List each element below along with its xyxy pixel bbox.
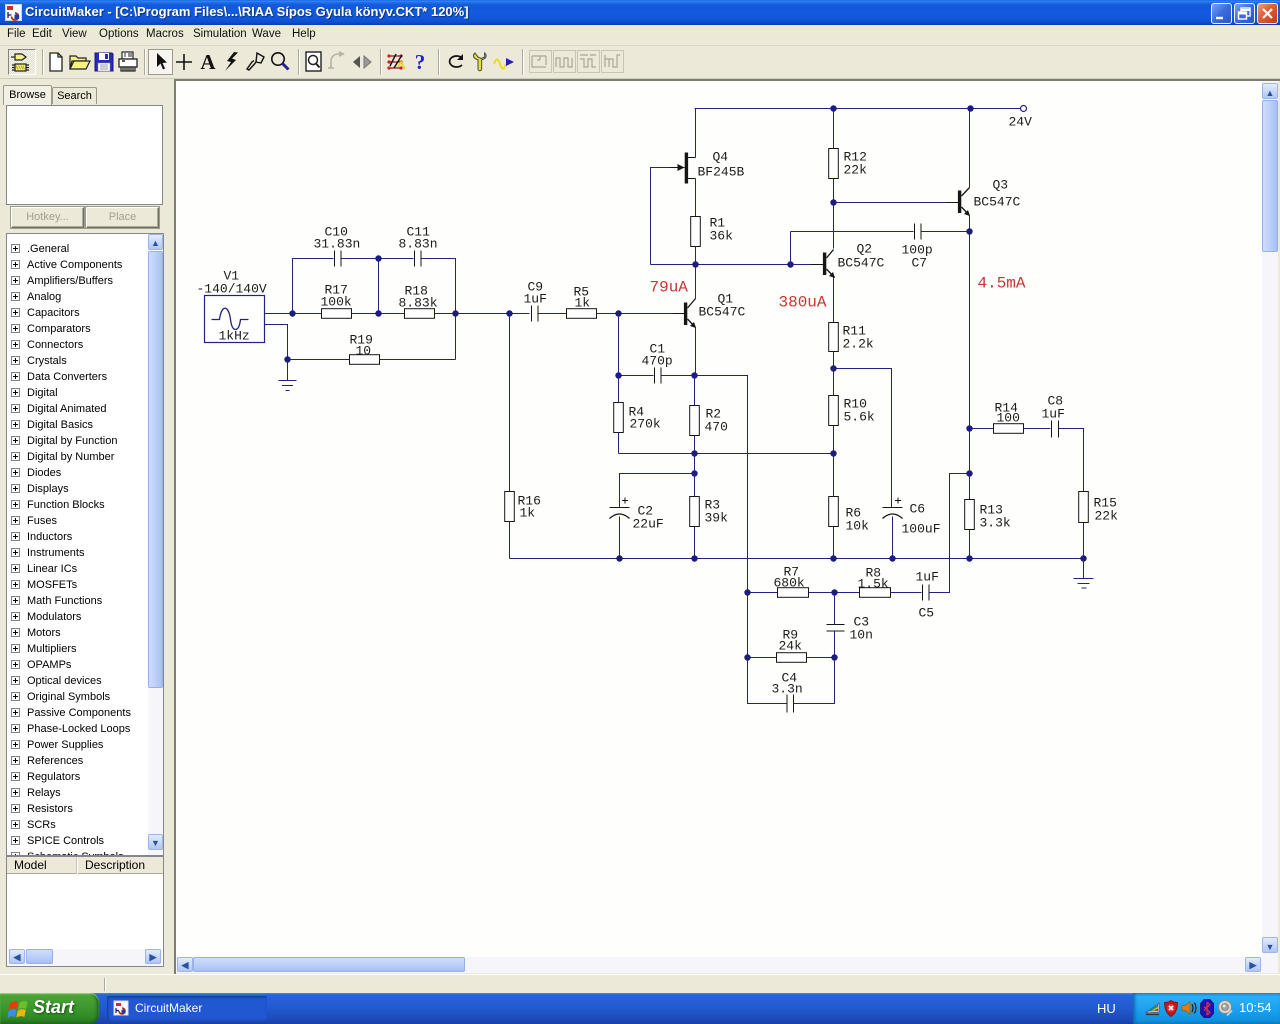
wire node to C6 top	[834, 369, 892, 508]
node power rail / R12	[830, 105, 836, 111]
wire R1 to lower rail	[695, 247, 697, 265]
wire lower-left rail	[651, 264, 791, 266]
scope buttons disabled	[529, 50, 552, 73]
node C2 bottom	[616, 555, 622, 561]
svg-text:2.2k: 2.2k	[843, 337, 874, 352]
wire C3 leads	[834, 593, 836, 658]
wire top power rail	[695, 108, 1021, 110]
ground V1	[279, 360, 297, 391]
svg-text:470: 470	[705, 420, 728, 435]
find doc	[302, 50, 326, 74]
resistor R4	[614, 403, 661, 433]
node R9 right / C3 bottom	[831, 654, 837, 660]
resistor R17	[321, 283, 352, 319]
svg-text:680k: 680k	[774, 576, 805, 591]
model/description	[6, 856, 164, 967]
node V1 output	[289, 310, 295, 316]
svg-text:24V: 24V	[1009, 115, 1033, 130]
svg-text:100uF: 100uF	[902, 522, 941, 537]
svg-text:1kHz: 1kHz	[219, 329, 250, 344]
svg-text:Q4: Q4	[713, 150, 729, 165]
wire Q3 collector	[969, 109, 971, 188]
wire Q1 emitter	[695, 328, 697, 376]
canvas vertical scrollbar	[1262, 81, 1278, 957]
node R14 branch	[966, 425, 972, 431]
start button	[0, 993, 99, 1024]
wire R14 to C8	[1024, 428, 1051, 430]
wire Q4 drain to rail	[695, 109, 697, 158]
node R7 left	[744, 589, 750, 595]
capacitor C11	[399, 225, 438, 267]
zoom	[268, 50, 292, 74]
node R6 bottom	[830, 555, 836, 561]
node R3 bottom	[691, 555, 697, 561]
wire R14 lead	[970, 428, 994, 430]
mirror arrows	[350, 50, 374, 74]
red label 79uA	[650, 279, 689, 297]
plus	[172, 50, 196, 74]
wire Q4 source to R1	[695, 179, 697, 217]
svg-text:24k: 24k	[779, 639, 803, 654]
task button	[107, 996, 267, 1021]
wire R7 to R8	[809, 592, 860, 594]
resistor R11	[829, 323, 874, 352]
resistor R13	[965, 500, 1011, 531]
wire R6 leads	[833, 454, 835, 559]
node R2 bottom	[691, 450, 697, 456]
transistor Q1	[674, 292, 746, 329]
node R18 right	[452, 310, 458, 316]
wire V1 output	[265, 313, 293, 315]
wire rail R4/R2/R10	[619, 453, 834, 455]
wire R3 leads	[694, 474, 696, 559]
svg-text:1uF: 1uF	[524, 292, 547, 307]
wire R5 to Q1 base	[597, 313, 674, 315]
canvas horizontal scrollbar	[176, 957, 1262, 973]
node power rail / Q3 collector	[967, 105, 973, 111]
node R11/R10	[830, 365, 836, 371]
svg-text:1uF: 1uF	[916, 570, 939, 585]
tray icon display	[1145, 1001, 1162, 1017]
print	[116, 50, 140, 74]
svg-text:36k: 36k	[710, 229, 734, 244]
svg-text:C7: C7	[912, 256, 928, 271]
Toolbar	[0, 46, 1280, 79]
wire Q3 emitter column	[969, 216, 971, 500]
wire up to C10 row	[293, 259, 334, 314]
svg-text:380uA: 380uA	[779, 294, 827, 312]
svg-text:31.83n: 31.83n	[314, 237, 361, 252]
svg-text:Q3: Q3	[993, 178, 1009, 193]
wrench	[468, 50, 492, 74]
reset	[444, 50, 468, 74]
red label 380uA	[779, 294, 827, 312]
resistor R12	[829, 149, 867, 179]
red label 4.5mA	[978, 275, 1026, 293]
Title bar	[0, 0, 1280, 25]
wire Q1 collector	[695, 265, 697, 299]
node Q1 emitter / C1	[691, 372, 697, 378]
svg-text:3.3k: 3.3k	[980, 516, 1011, 531]
svg-text:1uF: 1uF	[1042, 407, 1065, 422]
wire emitter node to right column	[695, 376, 748, 593]
tray icon volume	[1217, 1000, 1235, 1017]
svg-text:1.5k: 1.5k	[858, 577, 889, 592]
capacitor C5	[916, 570, 939, 621]
node R7/R8/C3	[831, 589, 837, 595]
resistor R9	[777, 628, 807, 663]
capacitor C8	[1042, 394, 1065, 438]
wire C1 right	[662, 375, 695, 377]
voltage source V1	[197, 269, 267, 344]
wire mid top to mid bottom	[378, 259, 380, 314]
Menu bar	[0, 25, 1280, 46]
node C6 bottom	[889, 555, 895, 561]
Status bar	[0, 974, 1280, 993]
wire R12 node down to Q2	[833, 203, 835, 249]
open	[68, 50, 92, 74]
tray icon shield	[1164, 1000, 1178, 1017]
wire C8 to R15	[1059, 429, 1084, 492]
wire R12 leads	[833, 109, 835, 203]
svg-text:22uF: 22uF	[633, 517, 664, 532]
node R15 bottom / ground	[1080, 555, 1086, 561]
wire V1 to R17	[293, 313, 322, 315]
wire C2 branch	[620, 474, 695, 508]
node 24V terminal	[1009, 106, 1033, 130]
save	[92, 50, 116, 74]
wire C9 to R5	[539, 313, 567, 315]
svg-text:270k: 270k	[630, 417, 661, 432]
new	[44, 50, 68, 74]
node V1 minus / ground	[284, 356, 290, 362]
svg-text:BC547C: BC547C	[699, 305, 746, 320]
svg-text:1k: 1k	[520, 506, 536, 521]
svg-text:C5: C5	[919, 606, 935, 621]
wire C4 loop	[748, 658, 835, 704]
svg-text:-140/140V: -140/140V	[197, 282, 267, 297]
wire R2 node down	[694, 454, 696, 474]
resistor R10	[829, 396, 875, 426]
svg-text:470p: 470p	[642, 354, 673, 369]
wire V1 minus	[265, 325, 288, 360]
resistor R16	[505, 492, 541, 522]
resistor R6	[829, 497, 869, 534]
node R17/R18 mid	[375, 310, 381, 316]
capacitor C9	[524, 280, 547, 322]
svg-text:Q2: Q2	[857, 242, 873, 257]
wire R11 bottom	[833, 352, 835, 369]
resistor R8	[858, 566, 891, 598]
wire C1 left	[619, 375, 654, 377]
svg-text:?: ?	[415, 50, 426, 74]
resistor R19	[350, 333, 380, 365]
wire R16 bottom	[509, 522, 511, 559]
svg-text:1k: 1k	[575, 296, 591, 311]
arrow (active)	[148, 49, 173, 75]
resistor R1	[691, 216, 733, 247]
wire R7 row left column	[748, 592, 778, 594]
wire R15 bottom	[1083, 523, 1085, 559]
Canvas	[176, 81, 1262, 957]
rotate disabled	[326, 50, 350, 74]
wire C11 right down	[422, 259, 456, 360]
wire Q3 base rail	[834, 202, 947, 204]
capacitor C7	[902, 224, 933, 271]
node R13 top	[966, 470, 972, 476]
A	[196, 50, 220, 74]
transistor Q3	[947, 178, 1021, 217]
Left panel	[0, 79, 176, 974]
wire C7 branch down	[790, 232, 792, 265]
waveforms	[492, 50, 516, 74]
ground output	[1074, 559, 1094, 589]
wire C6 bottom	[892, 517, 894, 559]
wire bottom rail	[510, 558, 1084, 560]
help	[408, 50, 432, 74]
wire R19 right	[380, 359, 456, 361]
node R13 bottom	[966, 555, 972, 561]
capacitor C6 electrolytic	[883, 498, 941, 537]
resistor R2	[690, 406, 728, 436]
capacitor C1	[642, 342, 673, 384]
node R9 left	[744, 654, 750, 660]
svg-text:A: A	[200, 50, 216, 74]
wire node down to C1 row	[618, 314, 620, 376]
resistor R7	[774, 565, 809, 598]
rules check	[384, 50, 408, 74]
wire Q2 base	[791, 264, 811, 266]
wire R9 column	[747, 593, 749, 658]
capacitor C2 electrolytic	[610, 498, 664, 532]
probe	[244, 50, 268, 74]
svg-text:5.6k: 5.6k	[844, 410, 875, 425]
wire C7 right	[922, 231, 970, 233]
resistor R18	[399, 284, 438, 319]
svg-text:100k: 100k	[321, 295, 352, 310]
svg-text:39k: 39k	[705, 511, 729, 526]
node C2 branch	[691, 470, 697, 476]
capacitor C4	[772, 671, 803, 713]
node R5 right	[615, 310, 621, 316]
wire R4 leads	[618, 376, 620, 454]
svg-text:10n: 10n	[850, 628, 873, 643]
capacitor C3	[827, 615, 873, 643]
svg-text:BC547C: BC547C	[974, 195, 1021, 210]
wire R18 to C9	[435, 313, 530, 315]
svg-text:22k: 22k	[844, 163, 868, 178]
svg-text:8.83n: 8.83n	[399, 237, 438, 252]
node Q2 base branch	[787, 261, 793, 267]
resistor R14	[994, 401, 1024, 434]
node C7 right	[966, 228, 972, 234]
wire C7 left	[791, 231, 914, 233]
wire Q2 emitter	[833, 278, 835, 323]
tray	[1133, 993, 1280, 1024]
resistor R5	[567, 285, 597, 319]
svg-text:8.83k: 8.83k	[399, 296, 438, 311]
resistor R15	[1079, 492, 1118, 524]
Taskbar	[0, 993, 1280, 1024]
svg-text:BC547C: BC547C	[838, 256, 885, 271]
wire R13 bottom	[969, 530, 971, 559]
resistor R3	[690, 497, 728, 527]
node R1 bottom	[692, 261, 698, 267]
wire Q4 gate	[651, 168, 671, 265]
svg-text:22k: 22k	[1095, 509, 1119, 524]
wire R10 leads	[833, 369, 835, 454]
node C10/C11 mid top	[375, 255, 381, 261]
node R12 bottom	[830, 199, 836, 205]
tree scrollbar	[148, 234, 163, 855]
svg-text:10: 10	[356, 344, 372, 359]
wire R8 to C5	[891, 592, 922, 594]
svg-text:3.3n: 3.3n	[772, 682, 803, 697]
panel h-scrollbar	[8, 949, 162, 966]
canvas frame border	[174, 79, 1280, 974]
lightning	[220, 50, 244, 74]
wire R2 leads	[694, 376, 696, 454]
wire C10 to C11	[342, 258, 414, 260]
wire C2 bottom	[619, 517, 621, 559]
wire R17 to R18	[352, 313, 405, 315]
svg-text:C6: C6	[910, 502, 926, 517]
wire to R19	[288, 359, 350, 361]
svg-text:4.5mA: 4.5mA	[978, 275, 1026, 293]
browse toggle button (pressed)	[8, 49, 36, 75]
svg-text:79uA: 79uA	[650, 279, 689, 297]
tray icon speaker orange	[1181, 1000, 1197, 1016]
wire C5 up to R13 node	[930, 474, 970, 593]
tray icon bluetooth	[1200, 999, 1214, 1018]
capacitor C10	[314, 225, 361, 267]
svg-text:BF245B: BF245B	[698, 165, 745, 180]
tree	[6, 233, 164, 856]
svg-text:10k: 10k	[846, 519, 870, 534]
svg-text:100: 100	[997, 411, 1020, 426]
transistor Q2	[811, 242, 885, 279]
transistor Q4	[671, 150, 745, 184]
wire R9 leads	[748, 657, 835, 659]
node C1 left	[615, 372, 621, 378]
node R10 bottom	[830, 450, 836, 456]
node C9 left / R16 top	[506, 310, 512, 316]
wire R16 top long	[509, 314, 511, 492]
